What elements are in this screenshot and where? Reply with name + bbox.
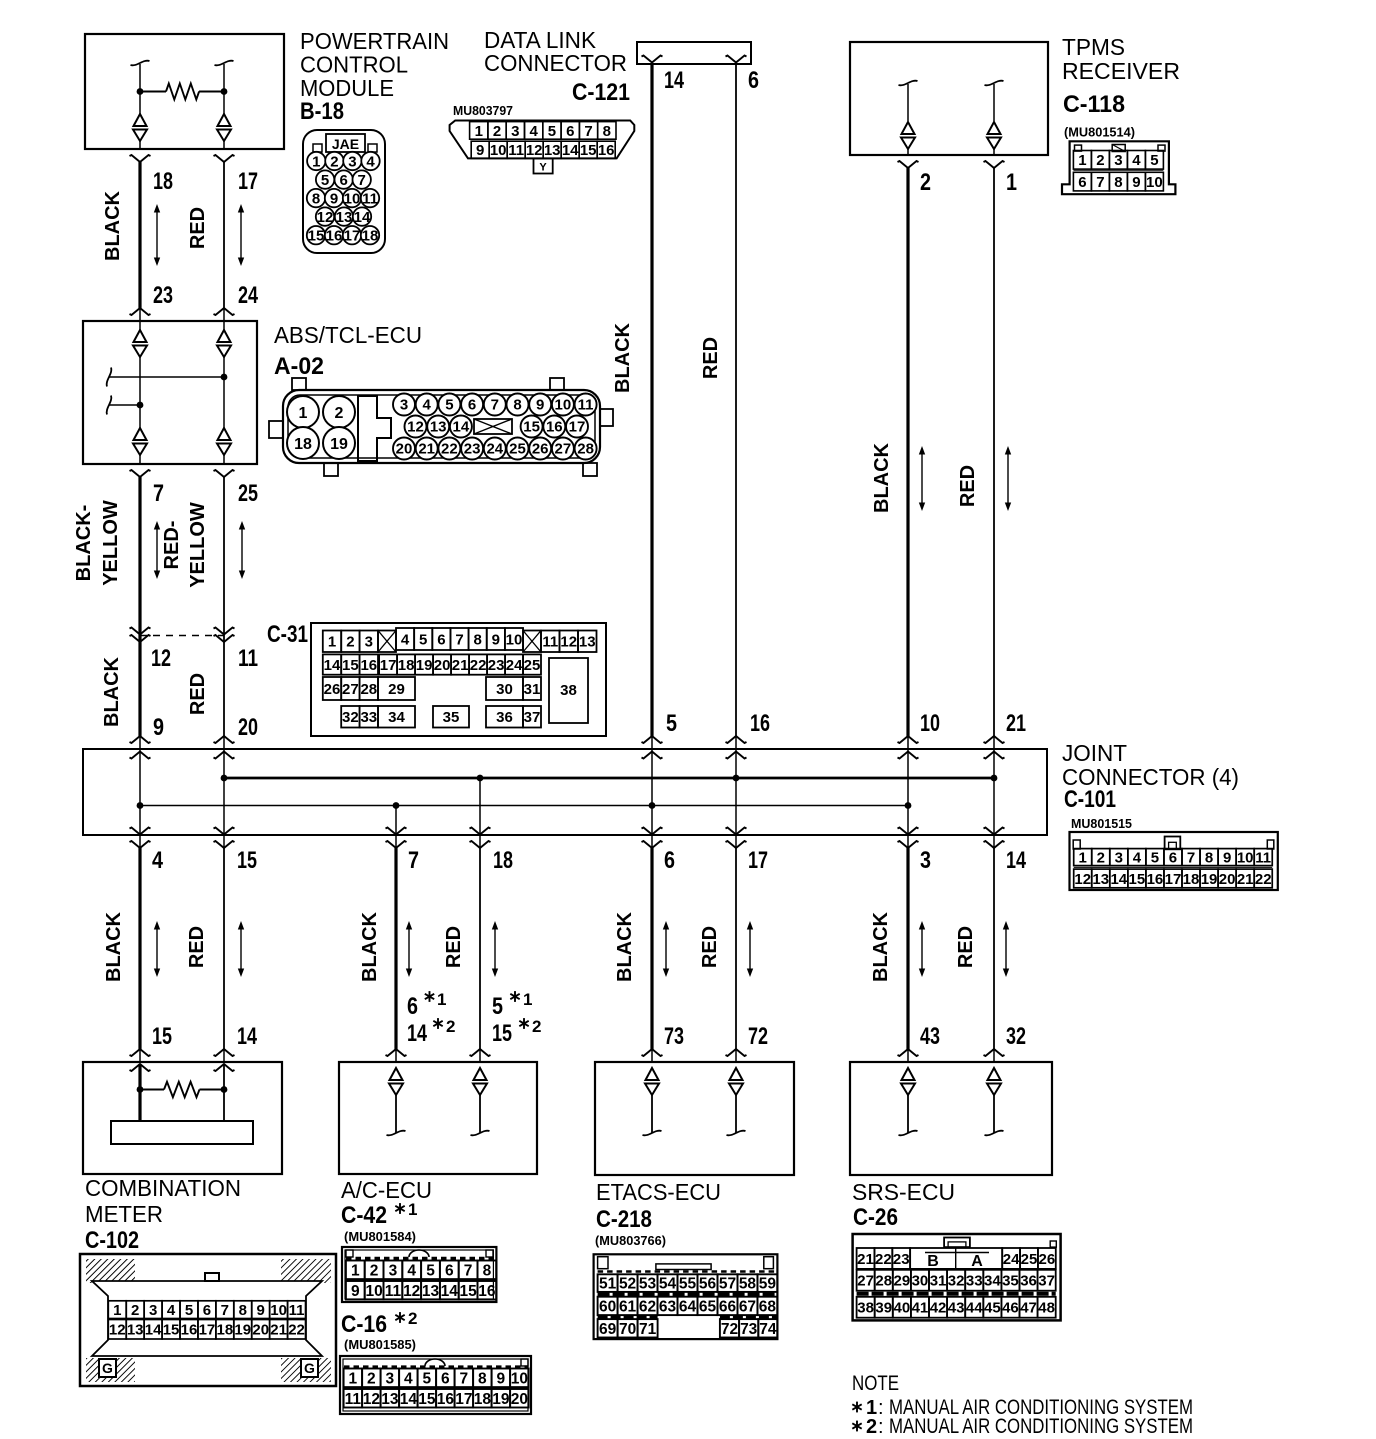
svg-text:10: 10 [365,1283,382,1300]
svg-text:5: 5 [423,1370,432,1387]
svg-text:34: 34 [388,709,405,726]
svg-text:13: 13 [422,1283,440,1300]
svg-text:17: 17 [455,1391,472,1408]
svg-text:11: 11 [289,1302,305,1319]
svg-text:30: 30 [912,1273,929,1290]
terminal pairs ABS top [133,321,231,357]
pin number 20 [238,714,258,741]
svg-text:61: 61 [619,1298,637,1315]
svg-text:15: 15 [418,1391,436,1408]
svg-text:51: 51 [599,1276,617,1293]
svg-text:RECEIVER: RECEIVER [1062,58,1180,84]
label RED (lower run) [955,926,977,968]
svg-text:13: 13 [430,419,447,436]
svg-text:7: 7 [408,847,419,874]
wire BLACK DLC 14->5 [642,63,663,749]
svg-text:3: 3 [348,154,356,171]
svg-text:CONTROL: CONTROL [300,52,408,78]
svg-text:21: 21 [270,1322,287,1339]
svg-text:4: 4 [404,1370,413,1387]
svg-text:8: 8 [513,397,521,414]
svg-text:25: 25 [524,657,541,674]
svg-text:19: 19 [330,436,348,453]
svg-text:RED: RED [955,926,977,968]
svg-text:2: 2 [408,1309,417,1328]
svg-text:BLACK: BLACK [101,656,123,727]
label BLACK (lower run) [614,911,636,982]
svg-text:17: 17 [344,228,361,245]
note text [852,1372,1193,1438]
SRS internal terminal pairs and ground pigtails [899,1068,1004,1135]
svg-text:MU803797: MU803797 [453,104,513,118]
svg-text:7: 7 [491,397,499,414]
svg-text:19: 19 [492,1391,510,1408]
svg-text:7: 7 [358,172,366,189]
svg-text:12: 12 [317,209,334,226]
pin number 3 (C-101 bottom) [920,847,931,874]
svg-text:58: 58 [739,1276,757,1293]
wire RED pin17->24 (PCM to ABS) [214,155,235,321]
svg-text:12: 12 [1074,871,1091,888]
svg-text:6: 6 [407,993,418,1020]
svg-text:35: 35 [1002,1273,1019,1290]
svg-text:24: 24 [506,657,523,674]
pin number 7 (ABS) [153,480,164,507]
svg-text:2: 2 [335,405,344,422]
svg-text:1: 1 [475,123,483,140]
svg-text:30: 30 [496,681,513,698]
wire BLACK meter 4->15 [130,848,151,1062]
svg-text:5: 5 [492,993,503,1020]
svg-text:1: 1 [437,990,446,1009]
svg-text:67: 67 [739,1298,756,1315]
svg-text:TPMS: TPMS [1062,34,1125,60]
label C-31 [267,621,308,648]
svg-text:5: 5 [419,631,427,648]
label RED (lower run) [443,926,465,968]
joint connector internal wires and terminals [130,749,1005,848]
svg-text:RED: RED [187,207,209,249]
title COMBINATION METER C-102 [85,1175,241,1254]
svg-text:7: 7 [455,631,463,648]
wire RED TPMS 1->21 [984,161,1005,749]
svg-text:SRS-ECU: SRS-ECU [852,1179,955,1205]
svg-text:G: G [102,1360,113,1376]
wire BLACK ETACS 6->73 [642,848,663,1062]
svg-text:3: 3 [386,1370,395,1387]
svg-text:22: 22 [1255,871,1272,888]
terminal pairs TPMS bottom [901,122,1001,155]
terminal pairs ABS bottom [133,428,231,464]
bus bar RED net [221,775,998,782]
svg-text:8: 8 [1114,174,1122,191]
svg-text:(MU801584): (MU801584) [344,1230,416,1244]
svg-text:16: 16 [598,142,615,159]
svg-text:37: 37 [524,709,541,726]
svg-text:71: 71 [639,1321,657,1338]
svg-text:34: 34 [984,1273,1001,1290]
svg-text:15: 15 [163,1322,180,1339]
svg-text:3: 3 [511,123,519,140]
pin number 4 (C-101 bottom) [152,847,164,874]
pin number 16 (C-101 top) [750,710,770,737]
arrow lower run red [747,921,753,977]
ECU box A/C-ECU [339,1062,537,1174]
svg-text:21: 21 [1006,710,1026,737]
svg-text:RED: RED [187,673,209,715]
svg-text:ABS/TCL-ECU: ABS/TCL-ECU [274,322,422,348]
wire RED SRS 14->32 [984,848,1005,1062]
svg-text:1: 1 [408,1200,417,1219]
svg-text:4: 4 [529,123,538,140]
svg-text:68: 68 [759,1298,777,1315]
svg-text:53: 53 [639,1276,657,1293]
svg-text:4: 4 [407,1262,416,1279]
wire BLACK TPMS 2->10 [898,161,919,749]
label BLACK (lower run) [870,911,892,982]
svg-text:14: 14 [664,67,684,94]
pin number 7 (C-101 bottom) [408,847,419,874]
svg-text:RED-: RED- [161,521,183,570]
arrow lower run black [919,921,925,977]
svg-text:2: 2 [1096,152,1104,169]
ECU box COMBINATION METER C-102 [83,1062,282,1174]
svg-text:6: 6 [468,397,476,414]
pin number 72 (ECU top) [748,1023,768,1050]
svg-text:1: 1 [1079,850,1087,867]
svg-text:1: 1 [349,1370,358,1387]
svg-text:56: 56 [699,1276,717,1293]
pigtail hooks inside TPMS [899,81,1004,86]
pin numbers 5*1 15*2 (A/C right) [492,990,541,1047]
svg-text:64: 64 [679,1298,697,1315]
svg-text:METER: METER [85,1201,163,1227]
svg-text:11: 11 [578,397,594,414]
svg-text:72: 72 [748,1023,768,1050]
svg-text:20: 20 [396,441,413,458]
svg-text:14: 14 [1110,871,1127,888]
svg-text:6: 6 [566,123,574,140]
svg-text:JOINT: JOINT [1062,740,1127,766]
svg-text:18: 18 [398,657,415,674]
label BLACK (lower run) [103,911,125,982]
svg-text:13: 13 [544,142,561,159]
svg-text:21: 21 [1237,871,1254,888]
svg-text:28: 28 [360,681,377,698]
svg-text:RED: RED [957,465,979,507]
svg-text:20: 20 [511,1391,528,1408]
wire RED DLC 6->16 [726,63,747,749]
svg-text:25: 25 [1021,1251,1038,1268]
label BLACK (TPMS run) [871,442,893,513]
svg-text:38: 38 [857,1300,874,1317]
svg-text:33: 33 [360,709,377,726]
label RED (PCM run) [187,207,209,249]
terminal pair symbols PCM bottom [133,114,231,149]
svg-text:13: 13 [381,1391,399,1408]
svg-text:27: 27 [555,441,572,458]
svg-text:(MU801585): (MU801585) [344,1338,416,1352]
svg-text:14: 14 [237,1023,257,1050]
meter display block [111,1121,253,1144]
node junction dots PCM [137,88,228,95]
svg-text:3: 3 [1115,850,1123,867]
svg-text:36: 36 [496,709,513,726]
svg-text:1: 1 [299,405,308,422]
svg-text:14: 14 [407,1020,427,1047]
svg-text:3: 3 [400,397,408,414]
svg-text:17: 17 [1165,871,1182,888]
svg-text:2: 2 [370,1262,379,1279]
title POWERTRAIN CONTROL MODULE B-18 [300,28,449,125]
label RED (TPMS run) [957,465,979,507]
svg-text:17: 17 [748,847,768,874]
wire meter internal left [138,1064,141,1121]
svg-text:24: 24 [238,282,258,309]
svg-text:31: 31 [930,1273,947,1290]
svg-text:BLACK-: BLACK- [73,505,95,582]
svg-text:6: 6 [748,67,759,94]
arrow lower run red [238,921,244,977]
svg-text:26: 26 [324,681,341,698]
svg-text:RED: RED [186,926,208,968]
svg-text:6: 6 [340,172,348,189]
svg-text:9: 9 [476,142,484,159]
svg-text:52: 52 [619,1276,636,1293]
svg-text:28: 28 [577,441,594,458]
svg-text:MU801515: MU801515 [1071,817,1132,831]
svg-text:16: 16 [1147,871,1164,888]
svg-text:14: 14 [145,1322,162,1339]
svg-text:C-101: C-101 [1064,786,1116,813]
svg-text:15: 15 [308,228,325,245]
svg-text:11: 11 [238,645,258,672]
svg-text:4: 4 [423,397,432,414]
svg-text:22: 22 [875,1251,892,1268]
svg-text:54: 54 [659,1276,677,1293]
arrow TPMS run left [919,446,925,511]
svg-text:55: 55 [679,1276,697,1293]
svg-text:12: 12 [560,634,577,651]
connector crossing C-31 dashed [130,628,235,643]
svg-text:C-16: C-16 [341,1311,387,1338]
svg-text:41: 41 [912,1300,929,1317]
svg-text:A/C-ECU: A/C-ECU [341,1177,432,1203]
svg-text:23: 23 [488,657,505,674]
svg-text:46: 46 [1002,1300,1019,1317]
wire meter internal right [223,1064,225,1121]
title TPMS RECEIVER C-118 [1062,34,1180,140]
svg-text:12: 12 [403,1283,420,1300]
svg-text:43: 43 [948,1300,965,1317]
svg-text:2: 2 [920,169,931,196]
svg-text:9: 9 [1132,174,1140,191]
connector pinout C-102 (22pin meter) [80,1254,336,1386]
wire RED meter 15->14 [214,848,235,1062]
svg-text:C-102: C-102 [85,1227,139,1254]
svg-text:23: 23 [893,1251,910,1268]
svg-text:18: 18 [362,228,379,245]
svg-text:16: 16 [437,1391,455,1408]
pin number 15 (C-101 bottom) [237,847,257,874]
svg-text:3: 3 [1114,152,1122,169]
label C-16 (MU801585) [341,1309,417,1352]
bus bar BLACK net [137,802,912,809]
svg-text:3: 3 [149,1302,157,1319]
svg-text:18: 18 [294,436,312,453]
svg-text:12: 12 [526,142,543,159]
svg-text:15: 15 [342,657,359,674]
svg-text:48: 48 [1038,1300,1055,1317]
svg-text:27: 27 [857,1273,874,1290]
svg-text:7: 7 [221,1302,229,1319]
connector pinout C-26 (48pin SRS) [853,1234,1061,1320]
svg-text:4: 4 [1132,152,1141,169]
svg-text:19: 19 [416,657,433,674]
arrow PCM run left [154,204,160,266]
svg-text:7: 7 [464,1262,473,1279]
wire BLACK pin18->23 (PCM to ABS) [130,155,151,321]
svg-text:7: 7 [1187,850,1195,867]
label BLACK (C-31 run) [101,656,123,727]
pin number 9 [153,714,164,741]
svg-text:60: 60 [599,1298,616,1315]
svg-text:RED: RED [700,337,722,379]
svg-text:21: 21 [452,657,469,674]
svg-text:15: 15 [1129,871,1146,888]
svg-text:6: 6 [437,631,445,648]
svg-text:11: 11 [1255,850,1271,867]
svg-text:9: 9 [1223,850,1231,867]
internal line to RED wire with pigtail [107,368,228,387]
svg-text:C-121: C-121 [572,79,630,106]
svg-text:13: 13 [1092,871,1109,888]
svg-text:5: 5 [426,1262,435,1279]
label RED (DLC run) [700,337,722,379]
svg-text:RED: RED [443,926,465,968]
resistor R termination inside PCM [140,84,224,100]
svg-text:10: 10 [1146,174,1163,191]
svg-text:73: 73 [664,1023,684,1050]
arrow TPMS run right [1005,446,1011,511]
svg-text:9: 9 [153,714,164,741]
connector pinout C-121 (16pin data link) [450,121,635,174]
svg-text:31: 31 [524,681,541,698]
terminal chevrons inside DLC box [642,56,747,63]
pin number 14 (DLC) [664,67,684,94]
svg-text:20: 20 [252,1322,269,1339]
svg-text:16: 16 [181,1322,198,1339]
svg-text:23: 23 [153,282,173,309]
svg-text:1: 1 [1006,169,1017,196]
wire PCM internal right [223,64,225,114]
label RED (C-31 run) [187,673,209,715]
A/C internal terminal pairs and ground pigtails [387,1068,490,1135]
svg-text:18: 18 [474,1391,492,1408]
svg-text:YELLOW: YELLOW [187,502,209,588]
svg-text:14: 14 [453,419,470,436]
connector pinout B-18 (JAE 18pin) [303,130,385,253]
svg-text:29: 29 [388,681,405,698]
pin number 21 (C-101 top) [1006,710,1026,737]
pin number 32 (ECU top) [1006,1023,1026,1050]
svg-text:12: 12 [109,1322,126,1339]
ECU box TPMS RECEIVER C-118 [850,42,1048,155]
svg-text:4: 4 [167,1302,176,1319]
svg-text:18: 18 [493,847,513,874]
svg-text:BLACK: BLACK [612,322,634,393]
svg-text:16: 16 [478,1283,496,1300]
arrow lower run red [1003,921,1009,977]
svg-text:2: 2 [131,1302,139,1319]
svg-text:27: 27 [342,681,359,698]
pin number 73 (ECU top) [664,1023,684,1050]
svg-text:7: 7 [1096,174,1104,191]
pin number 24 [238,282,258,309]
svg-text:2: 2 [367,1370,376,1387]
svg-text:10: 10 [344,191,361,208]
pin number 15 (ECU top) [152,1023,172,1050]
pin number 25 (ABS) [238,480,258,507]
svg-text:9: 9 [351,1283,360,1300]
svg-text:16: 16 [326,228,343,245]
svg-text:8: 8 [1205,850,1213,867]
meter internal terminals [130,1064,235,1071]
svg-text:17: 17 [380,657,397,674]
svg-text:4: 4 [152,847,164,874]
title JOINT CONNECTOR (4) C-101 [1062,740,1239,831]
svg-text:10: 10 [511,1370,528,1387]
svg-text:24: 24 [486,441,503,458]
pin number 12 [151,645,171,672]
svg-text:POWERTRAIN: POWERTRAIN [300,28,449,54]
svg-text:14: 14 [1006,847,1026,874]
wires ABS internal [140,357,224,428]
svg-text:C-218: C-218 [596,1206,652,1233]
pin number 2 (TPMS) [920,169,931,196]
arrow ABS run left [154,521,160,579]
svg-text:10: 10 [490,142,507,159]
svg-text:73: 73 [740,1321,758,1338]
svg-text:1: 1 [1078,152,1086,169]
svg-text:4: 4 [366,154,375,171]
joint connector box C-101 [83,749,1047,835]
pin number 17 [238,168,258,195]
title ABS/TCL-ECU A-02 [274,322,422,380]
svg-text:13: 13 [336,209,353,226]
svg-text:6: 6 [441,1370,450,1387]
svg-text:5: 5 [1151,850,1159,867]
part number MU803797 [453,104,513,118]
svg-text:(MU801514): (MU801514) [1064,125,1135,140]
svg-text:5: 5 [666,710,677,737]
svg-text:33: 33 [966,1273,983,1290]
ECU box ETACS-ECU [595,1062,794,1175]
connector pinout A-02 (28pin) [269,378,613,476]
svg-text:ETACS-ECU: ETACS-ECU [596,1179,721,1205]
svg-text:2: 2 [866,1416,877,1434]
svg-text:20: 20 [1219,871,1236,888]
connector pinout C-42 (MU801584 16pin) [342,1247,496,1302]
svg-text:10: 10 [555,397,572,414]
svg-text:21: 21 [418,441,435,458]
svg-text:BLACK: BLACK [359,911,381,982]
svg-text:BLACK: BLACK [870,911,892,982]
svg-text:18: 18 [153,168,173,195]
label BLACK (lower run) [359,911,381,982]
svg-text:JAE: JAE [332,136,359,152]
internal line to BLACK wire with pigtail [107,396,144,415]
